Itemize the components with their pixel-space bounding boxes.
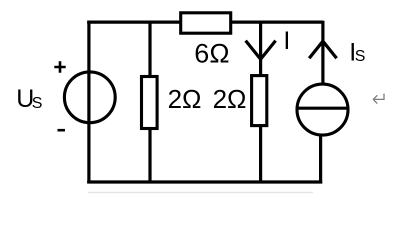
wire branch 4 lower (319, 133, 322, 183)
svg-text:6Ω: 6Ω (194, 38, 229, 68)
wire branch 2 (148, 21, 151, 184)
svg-text:2Ω: 2Ω (168, 84, 202, 114)
plus sign (54, 61, 65, 73)
svg-text:2Ω: 2Ω (213, 84, 247, 114)
wire branch 3 (259, 21, 262, 184)
wire branch 4 upper (321, 21, 324, 86)
current source I_S circle (297, 84, 348, 135)
wire left branch (87, 21, 90, 184)
resistor 2ohm no.1 body (142, 77, 158, 129)
wire top horizontal (87, 21, 323, 24)
current source I_S chord (297, 107, 348, 110)
arrowhead of Is (309, 41, 336, 58)
current arrow I head (246, 41, 276, 60)
svg-text:S: S (32, 95, 43, 112)
resistor 2ohm no.2 body (252, 76, 267, 126)
svg-text:S: S (355, 48, 366, 65)
return mark (373, 94, 384, 104)
svg-text:I: I (283, 27, 290, 55)
wire bottom horizontal (87, 180, 322, 183)
faint underline (88, 191, 313, 193)
resistor 6ohm body (181, 13, 231, 33)
minus sign (58, 129, 66, 132)
voltage source U_S circle (64, 72, 115, 123)
